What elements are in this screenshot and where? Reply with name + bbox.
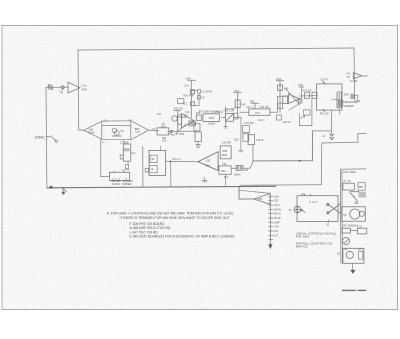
VR2 dark label block: [338, 99, 344, 106]
comparator Q2: [182, 114, 195, 129]
title text: [342, 290, 366, 291]
trimmer VR1: [226, 114, 234, 122]
junction at input rail: [50, 186, 53, 189]
ground under U11: [202, 177, 207, 182]
capacitor C52: [357, 228, 367, 234]
ground under R38: [196, 142, 201, 148]
resistor R1 input: [46, 137, 58, 143]
wire right vertical to op-amp U9: [353, 48, 356, 97]
ground Q9: [344, 248, 348, 250]
wire D3 out jog: [243, 161, 253, 168]
wire U6 out: [222, 117, 226, 119]
junction node A: [170, 161, 172, 163]
capacitor C2b at U10: [145, 168, 148, 172]
rectifier block D4: [358, 183, 365, 191]
regulator U13: [342, 228, 350, 233]
resistor R46: [283, 96, 288, 104]
capacitor C15 box: [178, 99, 184, 104]
feedback diagonal U7: [286, 89, 300, 105]
filter box U12b: [219, 166, 231, 174]
transistor Q1b in BBD: [114, 131, 119, 136]
BBD buffer U2a triangle: [79, 121, 102, 139]
capacitor C8: [170, 130, 174, 135]
wire chain to rail: [225, 174, 227, 186]
regulator block: [359, 192, 366, 197]
resistor R46b: [276, 115, 281, 120]
wire RN1 to U7: [270, 96, 289, 112]
transistor Q8: [359, 211, 364, 216]
U8 bottom tick: [323, 110, 325, 112]
switch SW1 bus: [269, 195, 271, 245]
wire U13 out: [350, 230, 357, 232]
wire hexagon to R9: [149, 129, 159, 132]
transistor Q6: [350, 192, 359, 201]
capacitor C1: [60, 86, 64, 94]
feedback loop U7: [300, 99, 312, 126]
wire R9 to bias node: [168, 130, 196, 132]
fuse F1: [343, 183, 354, 190]
power node +15V A: [188, 80, 196, 117]
small box under Q2: [194, 124, 200, 131]
resistor R20: [191, 90, 195, 94]
wire U7 out: [300, 95, 318, 97]
transistor Q7: [350, 209, 360, 219]
wire node to RN1: [240, 111, 249, 113]
mixer box U10: [149, 151, 166, 176]
U10 top stub: [159, 146, 161, 151]
resistor R36: [196, 115, 201, 120]
capacitor C25: [278, 103, 283, 109]
wire bias to rail: [141, 147, 144, 187]
U3 right tick: [131, 152, 134, 154]
lamp PL1: [294, 206, 301, 213]
SW1 ticks and labels: [269, 196, 273, 239]
wire VR1 to node: [234, 117, 242, 119]
wire U12b to D3: [231, 167, 236, 169]
BBD buffer U2b triangle: [131, 121, 149, 140]
feedback diagonal U7 lower: [289, 104, 299, 110]
wire U3 bottom: [127, 161, 129, 165]
output stage box: [343, 248, 364, 263]
signal arrow: [299, 160, 304, 162]
U10 inner cap: [149, 165, 157, 172]
resistor R53: [243, 126, 250, 133]
wire top feedback run: [78, 48, 354, 50]
junction blob Q2: [188, 120, 195, 127]
wire BBD to 4049: [123, 140, 125, 144]
junction arrow at lamp: [301, 209, 306, 213]
wire to ground: [351, 263, 353, 269]
AC bus line 1: [339, 169, 342, 263]
wire ground rail: [47, 186, 276, 188]
ground VR1: [224, 127, 228, 129]
op-amp U7: [289, 94, 300, 104]
BBD clock box U4: [109, 171, 129, 180]
op-amp U9: [353, 73, 362, 79]
capacitor C36 box: [248, 135, 255, 145]
ground arrow SW1: [268, 244, 272, 249]
transistor Q3: [172, 116, 186, 121]
connector P1 arrows: [330, 110, 334, 139]
capacitor C10: [120, 155, 123, 159]
resistor R70: [359, 251, 363, 259]
op-amp U1: [68, 82, 80, 93]
wire node A to rail: [170, 162, 172, 187]
AC bus line 2: [341, 169, 344, 263]
D3 dark squares: [237, 166, 239, 169]
resistor R45: [278, 85, 283, 90]
resistor R40: [235, 100, 240, 108]
transistor Q1 in BBD: [112, 128, 117, 133]
IC U6 4007: [203, 114, 220, 122]
wire BBD inner channel: [102, 124, 131, 126]
junction blob U7: [298, 98, 303, 104]
resistor R31: [178, 115, 182, 124]
resistor R49: [304, 110, 311, 115]
caption under pilot box line 1: [296, 231, 337, 248]
transformer T1 cross: [327, 204, 341, 214]
transistor Q10: [346, 251, 353, 258]
wire input: [46, 86, 68, 88]
op-amp U11 points left: [198, 152, 218, 171]
node R41: [251, 103, 259, 109]
power node above U7: [299, 87, 304, 99]
wire connector run: [312, 131, 366, 143]
U10 inner resistor: [150, 155, 157, 162]
diode D1: [192, 90, 201, 106]
U3 divider: [123, 150, 131, 152]
ground under node: [239, 150, 244, 152]
filter box U12a: [220, 146, 231, 159]
U8 top tick: [323, 81, 325, 83]
ground R49: [301, 115, 306, 118]
power node +15V C: [276, 81, 284, 113]
resistor network RN1: [249, 109, 270, 115]
capacitor C28: [350, 94, 354, 99]
capacitor C2 to ground: [62, 189, 67, 195]
transistor Q9: [343, 238, 350, 245]
resistor R9: [157, 128, 169, 135]
sweep range box U8: [317, 84, 342, 110]
wire BBD bottom channel: [102, 138, 131, 140]
pilot box frame: [297, 196, 338, 222]
VR2 bottom stub: [339, 110, 341, 114]
power node +15V B: [234, 93, 242, 118]
resistor R48: [312, 92, 317, 98]
pilot box tab: [302, 194, 304, 196]
capacitor C29: [355, 95, 358, 102]
ground arrow PSU: [350, 270, 355, 274]
capacitor C11: [125, 165, 128, 169]
AC feed line: [342, 168, 366, 170]
resistor R21: [191, 102, 195, 106]
op-amp U12 points left: [254, 194, 270, 205]
diagonal feed to U12: [239, 190, 270, 193]
wire BBD top channel: [102, 120, 131, 122]
vertical from BBD to clock box: [101, 139, 110, 176]
power node R30: [174, 111, 182, 132]
driver box Q7: [341, 207, 365, 221]
resistor R54: [243, 134, 249, 142]
wire lower bus: [240, 184, 321, 187]
bottom tick T1: [327, 220, 329, 222]
ground Q6: [355, 202, 359, 204]
wire node to R53: [240, 118, 242, 150]
U4 pin ticks: [113, 178, 126, 180]
net vertical at VR1: [225, 107, 227, 127]
wire to U12 input: [239, 187, 254, 200]
clock driver U3 tall box: [123, 144, 131, 161]
wire U10 to U11: [166, 160, 199, 163]
notes text block: [107, 212, 236, 239]
diode D3 block: [236, 166, 243, 171]
resistor R38: [195, 132, 201, 142]
capacitor C20: [234, 113, 238, 119]
wire input shield vertical: [45, 87, 48, 188]
wire left feedback vertical: [77, 50, 80, 130]
input jack J1: [48, 84, 53, 89]
resistor R47: [305, 92, 310, 98]
wire vertical frame left: [320, 143, 323, 185]
wire LFO return: [253, 131, 313, 161]
potentiometer VR2: [334, 92, 341, 108]
